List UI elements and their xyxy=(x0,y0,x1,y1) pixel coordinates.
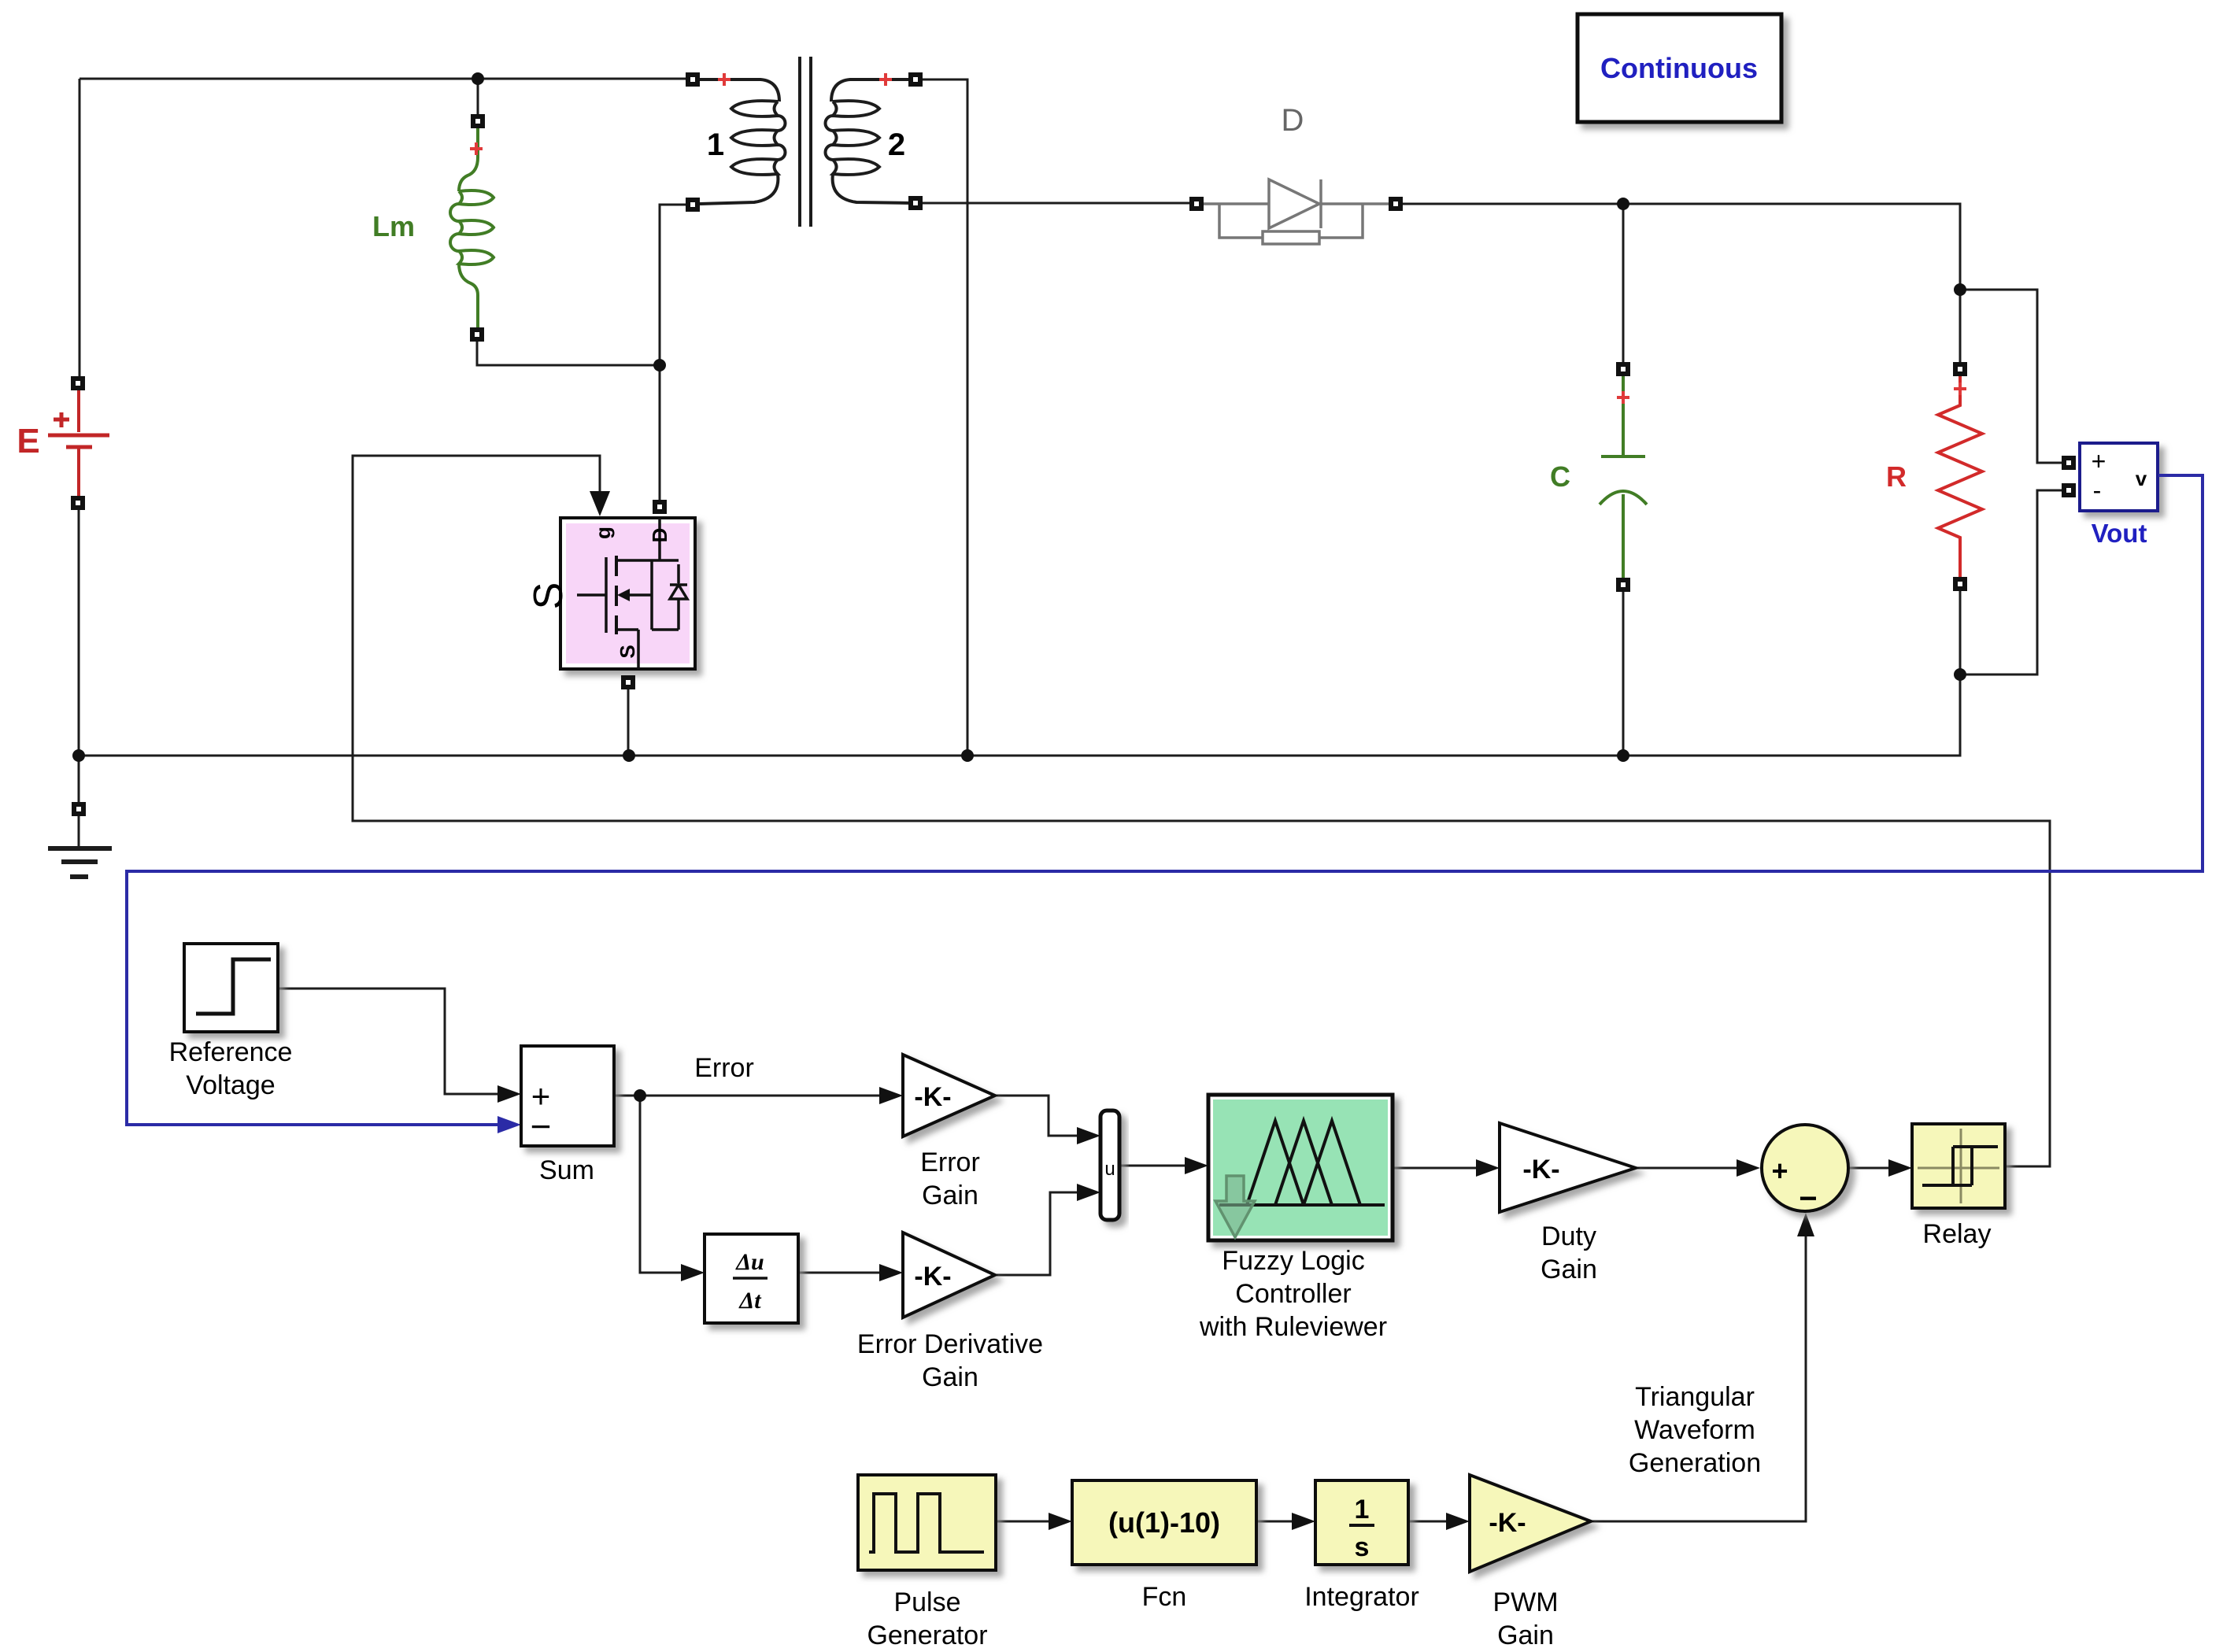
wire capacitor bottom to rail xyxy=(1622,592,1625,756)
svg-text:(u(1)-10): (u(1)-10) xyxy=(1108,1506,1220,1539)
svg-text:C: C xyxy=(1550,460,1570,493)
wire transformer secondary top to bottom rail xyxy=(923,79,967,756)
svg-text:−: − xyxy=(531,1106,552,1147)
wire Lm top stub xyxy=(477,79,479,115)
node junction Lm bottom / drain xyxy=(653,359,666,371)
svg-text:Generator: Generator xyxy=(867,1621,987,1650)
svg-text:Continuous: Continuous xyxy=(1600,52,1758,84)
Error Derivative Gain block xyxy=(857,1233,1043,1392)
svg-text:R: R xyxy=(1886,460,1907,493)
svg-text:v: v xyxy=(2136,467,2147,490)
arrowhead into Fuzzy Logic Controller xyxy=(1185,1157,1208,1174)
svg-text:Reference: Reference xyxy=(169,1037,293,1067)
port Lm bottom xyxy=(470,327,484,342)
port diode cathode xyxy=(1389,197,1403,211)
port ground xyxy=(72,802,86,816)
svg-text:Pulse: Pulse xyxy=(893,1587,960,1617)
mux block xyxy=(1100,1111,1119,1220)
svg-text:S: S xyxy=(616,645,639,658)
wire mux to Fuzzy Logic Controller xyxy=(1119,1165,1200,1167)
svg-text:Gain: Gain xyxy=(922,1181,978,1210)
arrowhead into Duty Gain xyxy=(1476,1159,1500,1177)
svg-text:Fcn: Fcn xyxy=(1142,1582,1187,1612)
PWM Gain block xyxy=(1470,1475,1591,1650)
resistor R xyxy=(1886,376,1982,578)
svg-text:-K-: -K- xyxy=(1489,1508,1526,1538)
svg-text:S: S xyxy=(526,582,571,610)
port resistor bottom xyxy=(1953,577,1967,591)
arrowhead into Relay xyxy=(1888,1159,1912,1177)
wire Lm bottom to drain node xyxy=(477,342,660,365)
port capacitor top xyxy=(1616,362,1630,376)
svg-text:Sum: Sum xyxy=(539,1155,594,1185)
svg-text:Voltage: Voltage xyxy=(186,1070,275,1100)
summing circle xyxy=(1762,1125,1848,1216)
node junction rail capacitor xyxy=(1617,749,1629,762)
port transformer 1- xyxy=(686,198,700,212)
svg-text:Generation: Generation xyxy=(1629,1448,1761,1478)
transformer T1 xyxy=(700,57,911,227)
wire ground stub xyxy=(78,756,80,803)
arrowhead into Integrator xyxy=(1292,1513,1315,1530)
wire Sum output to Error Gain xyxy=(614,1095,894,1097)
node junction diode row / capacitor xyxy=(1617,198,1629,210)
wire Error Gain to mux input 1 xyxy=(995,1096,1092,1136)
svg-text:-K-: -K- xyxy=(1522,1155,1559,1184)
wire transformer primary bottom to MOSFET drain xyxy=(660,205,686,501)
Integrator block xyxy=(1304,1480,1419,1612)
MOSFET block S xyxy=(560,518,695,669)
svg-text:Error: Error xyxy=(694,1053,754,1083)
node junction R top branch xyxy=(1954,283,1966,296)
wire PWM Gain to summing circle bottom xyxy=(1591,1221,1806,1521)
svg-text:Gain: Gain xyxy=(1497,1621,1554,1650)
wire transformer secondary bottom to diode xyxy=(923,202,1190,205)
wire Duty Gain to summing circle xyxy=(1636,1167,1751,1170)
svg-text:-: - xyxy=(2093,476,2102,504)
svg-text:Controller: Controller xyxy=(1235,1279,1351,1309)
svg-text:s: s xyxy=(1355,1532,1370,1562)
arrowhead blue into Sum minus xyxy=(497,1116,521,1133)
wire capacitor top drop xyxy=(1622,204,1625,363)
svg-text:Δt: Δt xyxy=(738,1288,762,1314)
arrowhead into Fcn xyxy=(1049,1513,1072,1530)
node junction rail secondary return xyxy=(961,749,974,762)
arrowhead into mux input 2 xyxy=(1077,1184,1100,1201)
derivative du/dt block xyxy=(705,1234,798,1323)
port battery - xyxy=(71,496,85,510)
wire R top branch to Vout plus xyxy=(1960,290,2062,463)
port battery + xyxy=(71,376,85,390)
port transformer 2+ xyxy=(908,72,923,87)
svg-text:D: D xyxy=(1282,103,1304,138)
port transformer 2- xyxy=(908,196,923,210)
svg-text:1: 1 xyxy=(707,128,724,162)
wire summing circle to Relay xyxy=(1850,1167,1903,1170)
svg-text:Integrator: Integrator xyxy=(1304,1582,1419,1612)
svg-text:Δu: Δu xyxy=(735,1249,764,1275)
wire Pulse Generator to Fcn xyxy=(996,1521,1063,1523)
Pulse Generator block xyxy=(858,1475,996,1650)
voltage measurement Vout xyxy=(2080,443,2158,548)
capacitor C xyxy=(1550,376,1647,578)
svg-text:with Ruleviewer: with Ruleviewer xyxy=(1199,1312,1387,1342)
Relay block xyxy=(1912,1124,2005,1249)
wire bottom rail xyxy=(79,674,1960,756)
node junction rail MOSFET source xyxy=(623,749,635,762)
wire MOSFET source to bottom rail xyxy=(627,689,630,756)
wire diode output row to R branch xyxy=(1402,204,1960,369)
svg-text:+: + xyxy=(1771,1155,1788,1187)
port Vout + xyxy=(2062,456,2076,470)
svg-text:Relay: Relay xyxy=(1923,1219,1992,1249)
svg-text:1: 1 xyxy=(1355,1495,1370,1524)
svg-text:Fuzzy Logic: Fuzzy Logic xyxy=(1222,1246,1364,1276)
port resistor top xyxy=(1953,362,1967,376)
wire error branch down to derivative xyxy=(640,1096,696,1273)
node junction top rail / Lm xyxy=(472,72,484,85)
diode D xyxy=(1204,103,1389,244)
port MOSFET drain xyxy=(653,500,667,514)
wire Vout feedback (blue) to Sum minus xyxy=(127,475,2203,1125)
Triangular Waveform Generation label xyxy=(1629,1382,1761,1478)
Reference Voltage step block xyxy=(169,944,293,1100)
wire left vertical battery feed xyxy=(79,79,81,377)
port transformer 1+ xyxy=(686,72,700,87)
svg-text:g: g xyxy=(591,527,615,539)
Fuzzy Logic Controller block xyxy=(1199,1095,1393,1342)
wire du/dt to Error Derivative Gain xyxy=(798,1272,894,1274)
battery E xyxy=(17,390,109,497)
wire Integrator to PWM Gain xyxy=(1408,1521,1461,1523)
port capacitor bottom xyxy=(1616,578,1630,592)
Duty Gain block xyxy=(1500,1123,1636,1284)
svg-text:2: 2 xyxy=(888,128,905,162)
arrowhead gate into MOSFET xyxy=(590,491,610,516)
svg-text:Error Derivative: Error Derivative xyxy=(857,1329,1043,1359)
arrowhead into du/dt xyxy=(681,1264,705,1281)
wire battery negative to bottom rail xyxy=(78,510,80,756)
svg-text:-K-: -K- xyxy=(914,1262,951,1292)
svg-text:-K-: -K- xyxy=(914,1082,951,1112)
wire Fuzzy Logic Controller to Duty Gain xyxy=(1393,1167,1491,1170)
svg-text:E: E xyxy=(17,422,39,460)
wire Fcn to Integrator xyxy=(1256,1521,1307,1523)
arrowhead into PWM Gain xyxy=(1446,1513,1470,1530)
svg-text:Duty: Duty xyxy=(1541,1221,1596,1251)
port MOSFET source xyxy=(621,675,635,689)
arrowhead into mux input 1 xyxy=(1077,1127,1100,1144)
node junction rail battery xyxy=(72,749,85,762)
ground xyxy=(48,816,112,877)
wire top rail from battery to transformer primary xyxy=(80,78,686,80)
node junction Sum output xyxy=(634,1089,646,1102)
svg-text:D: D xyxy=(648,528,671,543)
port Lm top xyxy=(471,114,485,128)
arrowhead into summing circle xyxy=(1737,1159,1760,1177)
inductor Lm xyxy=(372,128,494,327)
wire Error Derivative Gain to mux input 2 xyxy=(995,1192,1092,1275)
Continuous powergui block xyxy=(1578,14,1781,122)
svg-text:Waveform: Waveform xyxy=(1634,1415,1755,1445)
svg-text:Gain: Gain xyxy=(922,1362,978,1392)
svg-text:u: u xyxy=(1104,1159,1115,1180)
svg-text:Lm: Lm xyxy=(372,210,415,242)
Error Gain block xyxy=(903,1055,995,1210)
Sum block xyxy=(521,1046,614,1185)
wire R bottom to Vout minus xyxy=(1960,490,2062,674)
arrowhead into Error Gain xyxy=(879,1087,903,1104)
port Vout - xyxy=(2062,483,2076,497)
arrowhead into Sum plus xyxy=(497,1085,521,1103)
svg-text:+: + xyxy=(2092,447,2106,475)
svg-text:Triangular: Triangular xyxy=(1635,1382,1755,1412)
arrowhead into Error Derivative Gain xyxy=(879,1264,903,1281)
svg-text:Vout: Vout xyxy=(2092,519,2147,548)
Fcn block xyxy=(1072,1480,1256,1612)
node junction R bottom branch xyxy=(1954,668,1966,681)
svg-text:−: − xyxy=(1799,1181,1817,1216)
svg-text:Gain: Gain xyxy=(1541,1255,1597,1284)
wire Reference Voltage to Sum plus xyxy=(279,989,512,1094)
svg-text:PWM: PWM xyxy=(1492,1587,1558,1617)
port diode anode xyxy=(1189,197,1204,211)
wire relay output to MOSFET gate loop xyxy=(353,456,2050,1166)
arrowhead up into summing circle xyxy=(1797,1213,1814,1236)
svg-text:Error: Error xyxy=(920,1148,980,1177)
